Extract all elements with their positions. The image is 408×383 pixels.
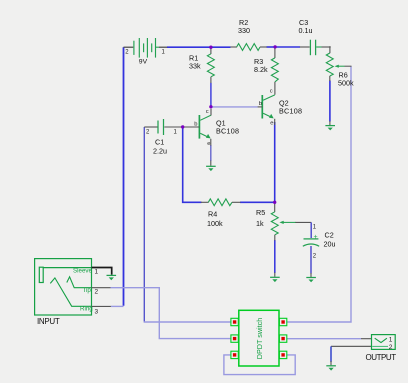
ground under Q1 emitter <box>206 161 216 172</box>
wire: jack sleeve to ground <box>92 268 112 275</box>
svg-text:9V: 9V <box>139 59 148 66</box>
node: C1/Q1 base/R4 <box>181 125 184 128</box>
svg-text:DPDT switch: DPDT switch <box>255 318 264 359</box>
svg-text:Ring: Ring <box>80 306 93 313</box>
wire: C2 corner down to top plate <box>310 222 312 238</box>
wire: C1 left down to DPDT row1 left <box>143 127 145 322</box>
node: battery+/R1/R2 <box>209 46 212 49</box>
svg-text:OUTPUT: OUTPUT <box>366 353 397 362</box>
transistor Q1 BC108 <box>183 109 240 147</box>
svg-text:Tip: Tip <box>83 287 92 294</box>
svg-text:3: 3 <box>95 308 99 315</box>
svg-text:8.2k: 8.2k <box>254 65 268 74</box>
potentiometer R5 1k vertical <box>256 202 296 240</box>
ground under R5 <box>270 273 280 283</box>
svg-text:33k: 33k <box>189 62 201 71</box>
svg-text:2: 2 <box>95 289 99 296</box>
wire: jack ring gray lead <box>92 305 111 307</box>
svg-text:20u: 20u <box>324 240 336 249</box>
wire: DPDT row3 bypass U loop <box>224 355 295 375</box>
capacitor C2 20u electrolytic <box>303 225 336 260</box>
wire: Q1 collector junction to Q2 base <box>211 106 258 108</box>
svg-text:R5: R5 <box>256 208 265 217</box>
wire: Q2 emitter down to R5 junction <box>274 122 276 202</box>
wire: battery negative trunk vertical x=123.5 <box>123 47 125 305</box>
svg-text:C1: C1 <box>155 138 164 147</box>
wire: top rail battery+ to R1 junction <box>167 46 211 48</box>
transistor Q2 BC108 <box>258 89 303 127</box>
svg-text:100k: 100k <box>207 219 223 228</box>
resistor R2 330 horizontal <box>230 18 266 50</box>
wire: R2 right to R3 junction <box>267 46 276 48</box>
wire: R3 junction to C3 left <box>275 46 300 48</box>
ground under R6 <box>325 121 335 130</box>
svg-text:2.2u: 2.2u <box>153 147 167 156</box>
svg-text:BC108: BC108 <box>216 127 239 136</box>
wire: Q1 emitter down to ground <box>210 145 212 161</box>
wire: R5 bottom to ground <box>274 240 276 273</box>
wire: DPDT row2 right to output pin1 <box>287 338 361 340</box>
svg-text:Sleeve: Sleeve <box>73 267 92 274</box>
potentiometer R6 500k vertical <box>326 46 354 87</box>
svg-text:0.1u: 0.1u <box>299 26 313 35</box>
svg-text:330: 330 <box>238 26 250 35</box>
node: R1/Q1 collector/Q2 base <box>209 105 212 108</box>
wire: jack tip gray lead <box>92 287 111 289</box>
svg-text:b: b <box>194 121 197 127</box>
svg-text:1k: 1k <box>256 219 264 228</box>
svg-text:1: 1 <box>95 269 99 276</box>
svg-text:INPUT: INPUT <box>37 317 60 326</box>
wire: R4 right to R5 junction <box>240 201 275 203</box>
wire: R6 bottom to ground <box>329 81 331 122</box>
svg-text:500k: 500k <box>338 79 354 88</box>
wire: output pin2 to ground <box>331 345 372 347</box>
svg-text:c: c <box>206 109 209 115</box>
wire: R6 wiper down to DPDT row1 right <box>287 66 351 322</box>
input jack J1 <box>35 259 99 326</box>
wire: C1 right junction down to R4 corner <box>183 127 202 202</box>
svg-text:e: e <box>270 121 273 127</box>
node: R2/R3/C3 <box>273 45 276 48</box>
resistor R3 8.2k vertical <box>254 47 278 95</box>
svg-text:C2: C2 <box>325 231 334 240</box>
node: R4/R5/Q2 emitter <box>273 201 276 204</box>
output jack J2 <box>366 335 397 362</box>
wire: jack tip to DPDT row2 left <box>111 288 231 339</box>
resistor R1 33k vertical <box>189 47 214 83</box>
wire: jack ring stub to battery trunk <box>111 305 124 307</box>
svg-text:e: e <box>207 141 210 147</box>
svg-text:2: 2 <box>389 344 393 351</box>
capacitor C3 0.1u horizontal <box>299 18 331 55</box>
wire: R1 junction to R2 left <box>211 46 231 48</box>
svg-text:b: b <box>259 101 262 107</box>
svg-text:+: + <box>314 234 318 241</box>
svg-text:BC108: BC108 <box>279 107 302 116</box>
DPDT switch S1 <box>231 310 287 366</box>
wire: output pin1 gray lead <box>361 338 372 340</box>
ground at output <box>326 361 336 371</box>
capacitor C1 2.2u horizontal <box>144 119 182 156</box>
svg-text:R4: R4 <box>208 210 217 219</box>
wire: C2 bottom to ground <box>310 246 312 274</box>
svg-text:c: c <box>270 89 273 95</box>
ground at jack sleeve <box>107 275 117 280</box>
svg-text:1: 1 <box>389 337 393 344</box>
battery V1 9V <box>124 38 168 66</box>
wire: R1 bottom to Q1 collector junction <box>210 83 212 107</box>
ground under C2 <box>306 273 316 282</box>
wire: R5 wiper to C2 corner <box>295 221 311 223</box>
resistor R4 100k horizontal <box>201 199 241 228</box>
